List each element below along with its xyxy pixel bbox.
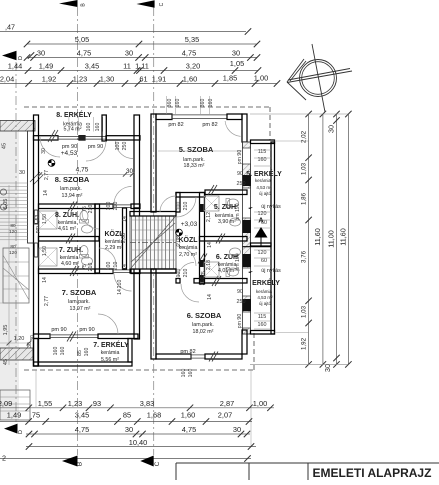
svg-text:8. ERKÉLY: 8. ERKÉLY <box>56 110 92 119</box>
svg-text:5,74 m²: 5,74 m² <box>64 127 82 133</box>
svg-text:30: 30 <box>19 170 25 176</box>
svg-text:250: 250 <box>237 181 246 187</box>
svg-text:2,08: 2,08 <box>121 233 127 243</box>
svg-text:C: C <box>159 2 165 6</box>
svg-text:5,35: 5,35 <box>185 35 199 44</box>
svg-text:2,77: 2,77 <box>44 296 50 306</box>
svg-text:4,75: 4,75 <box>76 167 89 174</box>
svg-text:18,02 m²: 18,02 m² <box>193 329 214 335</box>
svg-text:30: 30 <box>327 125 336 133</box>
svg-text:160: 160 <box>175 99 181 108</box>
svg-text:30: 30 <box>125 425 133 434</box>
svg-text:210: 210 <box>200 277 206 286</box>
svg-text:pm 90: pm 90 <box>237 314 243 329</box>
svg-text:1,30: 1,30 <box>100 75 114 84</box>
svg-text:1,60: 1,60 <box>183 75 197 84</box>
svg-text:360: 360 <box>200 99 206 108</box>
svg-text:30: 30 <box>125 49 133 58</box>
svg-text:5,05: 5,05 <box>75 35 89 44</box>
svg-text:5,56 m²: 5,56 m² <box>101 357 119 363</box>
svg-text:2,04: 2,04 <box>0 75 14 84</box>
svg-text:60: 60 <box>261 258 267 264</box>
svg-text:új ajtó: új ajtó <box>259 301 272 306</box>
svg-text:1,60: 1,60 <box>181 411 195 420</box>
svg-text:1,00: 1,00 <box>254 74 268 83</box>
svg-text:14: 14 <box>207 294 213 300</box>
svg-text:30: 30 <box>37 49 45 58</box>
svg-text:1,49: 1,49 <box>7 411 21 420</box>
svg-text:1,23: 1,23 <box>73 75 87 84</box>
svg-text:14: 14 <box>117 289 123 295</box>
svg-text:160: 160 <box>60 347 66 356</box>
svg-text:pm 190: pm 190 <box>235 203 241 220</box>
svg-text:2,18: 2,18 <box>206 260 212 270</box>
svg-text:lam.park.: lam.park. <box>192 322 214 328</box>
svg-text:2,29 m²: 2,29 m² <box>105 245 123 251</box>
svg-text:250: 250 <box>122 142 128 151</box>
svg-text:1,00: 1,00 <box>253 399 267 408</box>
svg-text:4,53 m²: 4,53 m² <box>256 185 272 190</box>
svg-text:93: 93 <box>93 399 101 408</box>
svg-text:5. ZUH: 5. ZUH <box>214 204 236 211</box>
svg-text:2,77: 2,77 <box>44 170 50 180</box>
svg-text:5. ERKÉLY: 5. ERKÉLY <box>246 169 282 178</box>
svg-text:14: 14 <box>42 277 48 283</box>
svg-text:75: 75 <box>32 411 40 420</box>
svg-text:1,92: 1,92 <box>301 337 308 350</box>
svg-text:210: 210 <box>183 269 189 278</box>
svg-text:,47: ,47 <box>5 23 15 32</box>
svg-text:210: 210 <box>113 262 119 271</box>
svg-text:1,91: 1,91 <box>152 75 166 84</box>
svg-text:4,61 m²: 4,61 m² <box>58 226 76 232</box>
svg-text:360: 360 <box>167 99 173 108</box>
svg-text:5. SZOBA: 5. SZOBA <box>179 145 214 154</box>
svg-text:11: 11 <box>123 62 131 71</box>
svg-text:90: 90 <box>237 289 243 295</box>
svg-text:pm 1,53: pm 1,53 <box>35 215 41 234</box>
svg-text:210: 210 <box>88 263 94 272</box>
svg-text:2: 2 <box>2 454 6 463</box>
svg-text:8. ZUH.: 8. ZUH. <box>55 212 79 219</box>
svg-text:2,07: 2,07 <box>218 411 232 420</box>
svg-text:30: 30 <box>233 425 241 434</box>
svg-text:kerámia: kerámia <box>256 289 273 294</box>
svg-text:100: 100 <box>176 202 182 211</box>
svg-text:85: 85 <box>77 350 83 356</box>
svg-text:7. ZUH.: 7. ZUH. <box>59 247 83 254</box>
svg-text:1,95: 1,95 <box>3 325 9 336</box>
svg-text:3,45: 3,45 <box>85 62 99 71</box>
svg-text:1,05: 1,05 <box>230 59 244 68</box>
svg-text:80: 80 <box>10 223 16 229</box>
svg-text:160: 160 <box>86 123 92 132</box>
svg-text:45: 45 <box>2 143 8 149</box>
svg-text:pm 82: pm 82 <box>168 122 183 128</box>
svg-text:2,87: 2,87 <box>220 399 234 408</box>
svg-text:4,53 m²: 4,53 m² <box>257 295 273 300</box>
svg-text:pm 190: pm 190 <box>235 253 241 270</box>
svg-text:30: 30 <box>232 49 240 58</box>
svg-text:100: 100 <box>176 269 182 278</box>
svg-text:2,09: 2,09 <box>0 399 12 408</box>
svg-text:1,03: 1,03 <box>301 162 308 175</box>
svg-text:14: 14 <box>122 216 128 222</box>
svg-text:1,49: 1,49 <box>39 62 53 71</box>
svg-text:160: 160 <box>53 347 59 356</box>
svg-text:4,60 m²: 4,60 m² <box>61 261 79 267</box>
svg-text:2,12: 2,12 <box>206 212 212 222</box>
svg-text:D: D <box>18 56 24 60</box>
svg-text:210: 210 <box>183 202 189 211</box>
svg-text:kerámia: kerámia <box>255 178 272 183</box>
svg-text:90: 90 <box>237 171 243 177</box>
svg-text:1,86: 1,86 <box>301 192 308 205</box>
svg-text:pm 90: pm 90 <box>51 327 66 333</box>
svg-text:1,50: 1,50 <box>42 214 48 224</box>
svg-text:4,75: 4,75 <box>77 49 91 58</box>
svg-text:+4,53: +4,53 <box>61 150 78 157</box>
svg-text:ERKÉLY: ERKÉLY <box>252 278 280 287</box>
svg-text:115: 115 <box>258 314 267 320</box>
svg-text:160: 160 <box>258 322 267 328</box>
svg-text:A: A <box>258 216 264 225</box>
svg-text:160: 160 <box>181 369 187 378</box>
svg-text:kerámia: kerámia <box>101 350 120 356</box>
svg-text:120: 120 <box>258 250 267 256</box>
svg-text:1,20: 1,20 <box>14 336 25 342</box>
svg-text:új nyílás: új nyílás <box>261 204 281 210</box>
svg-text:2,70 m²: 2,70 m² <box>179 252 197 258</box>
svg-text:30: 30 <box>27 342 33 348</box>
svg-text:pm 90: pm 90 <box>237 150 243 165</box>
svg-text:3,83: 3,83 <box>140 399 154 408</box>
svg-text:100: 100 <box>115 142 121 151</box>
svg-text:10,40: 10,40 <box>129 438 148 447</box>
svg-text:új ajtó: új ajtó <box>259 191 272 196</box>
svg-text:160: 160 <box>208 99 214 108</box>
svg-text:80: 80 <box>10 244 16 250</box>
svg-text:pm 90: pm 90 <box>79 327 94 333</box>
svg-text:1,85: 1,85 <box>223 74 237 83</box>
svg-text:lam.park.: lam.park. <box>60 186 82 192</box>
svg-text:4,75: 4,75 <box>182 425 196 434</box>
svg-text:C: C <box>154 461 161 466</box>
svg-text:4,01 m²: 4,01 m² <box>218 268 236 274</box>
svg-text:14: 14 <box>122 264 128 270</box>
svg-text:30: 30 <box>323 364 332 372</box>
svg-text:14: 14 <box>207 242 213 248</box>
svg-text:160: 160 <box>188 369 194 378</box>
svg-text:6,05: 6,05 <box>3 199 9 210</box>
svg-text:11,60: 11,60 <box>313 228 322 245</box>
svg-text:250: 250 <box>237 299 246 305</box>
svg-text:210: 210 <box>117 280 123 289</box>
svg-text:4,75: 4,75 <box>75 425 89 434</box>
svg-text:6. SZOBA: 6. SZOBA <box>187 311 222 320</box>
svg-text:61: 61 <box>139 75 147 84</box>
svg-text:160: 160 <box>84 348 90 357</box>
svg-text:új nyílás: új nyílás <box>261 268 281 274</box>
svg-text:45: 45 <box>3 359 9 365</box>
svg-text:100: 100 <box>106 202 112 211</box>
svg-text:210: 210 <box>113 202 119 211</box>
svg-text:1,44: 1,44 <box>8 62 22 71</box>
svg-text:75: 75 <box>201 271 207 277</box>
svg-text:EMELETI ALAPRAJZ: EMELETI ALAPRAJZ <box>313 466 432 480</box>
svg-text:B: B <box>77 462 84 466</box>
svg-text:11,00: 11,00 <box>327 230 336 247</box>
svg-text:30: 30 <box>41 148 47 154</box>
svg-text:D: D <box>18 430 24 434</box>
svg-text:13,94 m²: 13,94 m² <box>62 193 83 199</box>
svg-text:2,08: 2,08 <box>176 236 182 246</box>
svg-text:4,75: 4,75 <box>182 49 196 58</box>
svg-text:pm 82: pm 82 <box>202 122 217 128</box>
svg-text:1,68: 1,68 <box>147 411 161 420</box>
svg-text:3,20: 3,20 <box>186 62 200 71</box>
svg-text:1,55: 1,55 <box>38 399 52 408</box>
svg-text:1,92: 1,92 <box>42 75 56 84</box>
svg-text:11,60: 11,60 <box>338 228 347 245</box>
svg-text:210: 210 <box>88 205 94 214</box>
svg-text:pm 82: pm 82 <box>180 349 195 355</box>
svg-text:3,90 m²: 3,90 m² <box>218 219 236 225</box>
svg-text:1,11: 1,11 <box>135 62 149 71</box>
svg-text:18,33 m²: 18,33 m² <box>184 163 205 169</box>
svg-text:8. SZOBA: 8. SZOBA <box>55 175 90 184</box>
svg-text:100: 100 <box>106 262 112 271</box>
svg-text:14: 14 <box>43 190 49 196</box>
svg-text:160: 160 <box>95 123 101 132</box>
svg-text:+3,03: +3,03 <box>181 221 198 228</box>
svg-text:lam.park.: lam.park. <box>68 299 90 305</box>
svg-text:7. SZOBA: 7. SZOBA <box>62 288 97 297</box>
svg-text:13,97 m²: 13,97 m² <box>70 306 91 312</box>
svg-text:pm 90: pm 90 <box>88 144 103 150</box>
svg-text:1,03: 1,03 <box>301 305 308 318</box>
svg-text:85: 85 <box>123 411 131 420</box>
svg-text:1,23: 1,23 <box>68 399 82 408</box>
svg-text:30: 30 <box>30 335 36 341</box>
svg-text:1,50: 1,50 <box>42 246 48 256</box>
svg-text:3,76: 3,76 <box>301 250 308 263</box>
svg-text:7. ERKÉLY: 7. ERKÉLY <box>93 340 129 349</box>
svg-text:3,45: 3,45 <box>75 411 89 420</box>
